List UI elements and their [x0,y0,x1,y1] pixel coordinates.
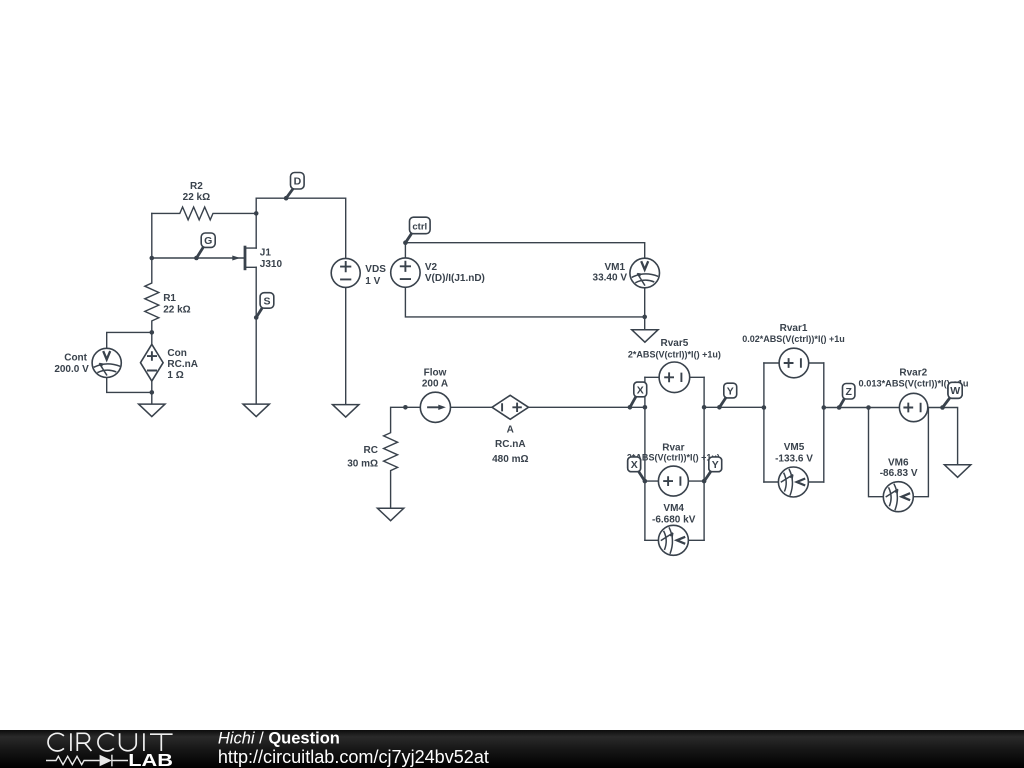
svg-text:LAB: LAB [128,750,173,768]
svg-text:Cont: Cont [64,352,87,363]
svg-text:X: X [631,459,638,471]
svg-text:V(D)/I(J1.nD): V(D)/I(J1.nD) [425,273,485,284]
svg-text:Rvar1: Rvar1 [780,323,808,334]
svg-text:Con: Con [167,348,186,359]
svg-text:0.02*ABS(V(ctrl))*I() +1u: 0.02*ABS(V(ctrl))*I() +1u [742,334,845,344]
svg-text:V2: V2 [425,262,438,273]
svg-text:-6.680 kV: -6.680 kV [652,514,696,525]
svg-text:1 V: 1 V [365,276,380,287]
svg-text:Y: Y [727,385,734,397]
svg-text:VM6: VM6 [888,457,909,468]
svg-text:VM5: VM5 [784,442,805,453]
svg-text:J1: J1 [260,247,272,258]
svg-text:-86.83 V: -86.83 V [880,468,918,479]
svg-text:VM4: VM4 [663,503,684,514]
svg-text:A: A [507,425,514,436]
svg-text:22 kΩ: 22 kΩ [163,304,190,315]
svg-text:R2: R2 [190,181,203,192]
svg-text:D: D [294,176,302,188]
svg-text:30 mΩ: 30 mΩ [347,458,378,469]
svg-text:Z: Z [845,386,852,398]
svg-text:VM1: VM1 [604,262,625,273]
svg-text:R1: R1 [163,293,176,304]
svg-text:200.0 V: 200.0 V [54,364,89,375]
svg-text:http://circuitlab.com/cj7yj24b: http://circuitlab.com/cj7yj24bv52at [218,746,490,767]
svg-text:33.40 V: 33.40 V [593,272,628,283]
svg-text:Rvar5: Rvar5 [660,338,688,349]
svg-text:1 Ω: 1 Ω [167,370,183,381]
svg-text:Flow: Flow [424,368,447,379]
svg-text:Rvar2: Rvar2 [899,367,927,378]
svg-text:2*ABS(V(ctrl))*I() +1u): 2*ABS(V(ctrl))*I() +1u) [628,349,721,359]
svg-text:X: X [637,384,644,396]
svg-text:RC.nA: RC.nA [495,439,526,450]
svg-text:480 mΩ: 480 mΩ [492,454,528,465]
svg-text:200 A: 200 A [422,378,448,389]
svg-text:VDS: VDS [365,264,386,275]
svg-text:Y: Y [712,459,719,471]
svg-text:S: S [263,295,270,307]
svg-text:W: W [950,385,960,397]
svg-text:Hichi / Question: Hichi / Question [218,730,340,748]
svg-text:G: G [204,235,212,247]
svg-text:RC.nA: RC.nA [167,359,198,370]
svg-text:ctrl: ctrl [412,221,427,232]
svg-text:-133.6 V: -133.6 V [775,454,813,465]
svg-text:J310: J310 [260,259,283,270]
svg-text:22 kΩ: 22 kΩ [183,192,210,203]
svg-text:RC: RC [364,445,378,456]
